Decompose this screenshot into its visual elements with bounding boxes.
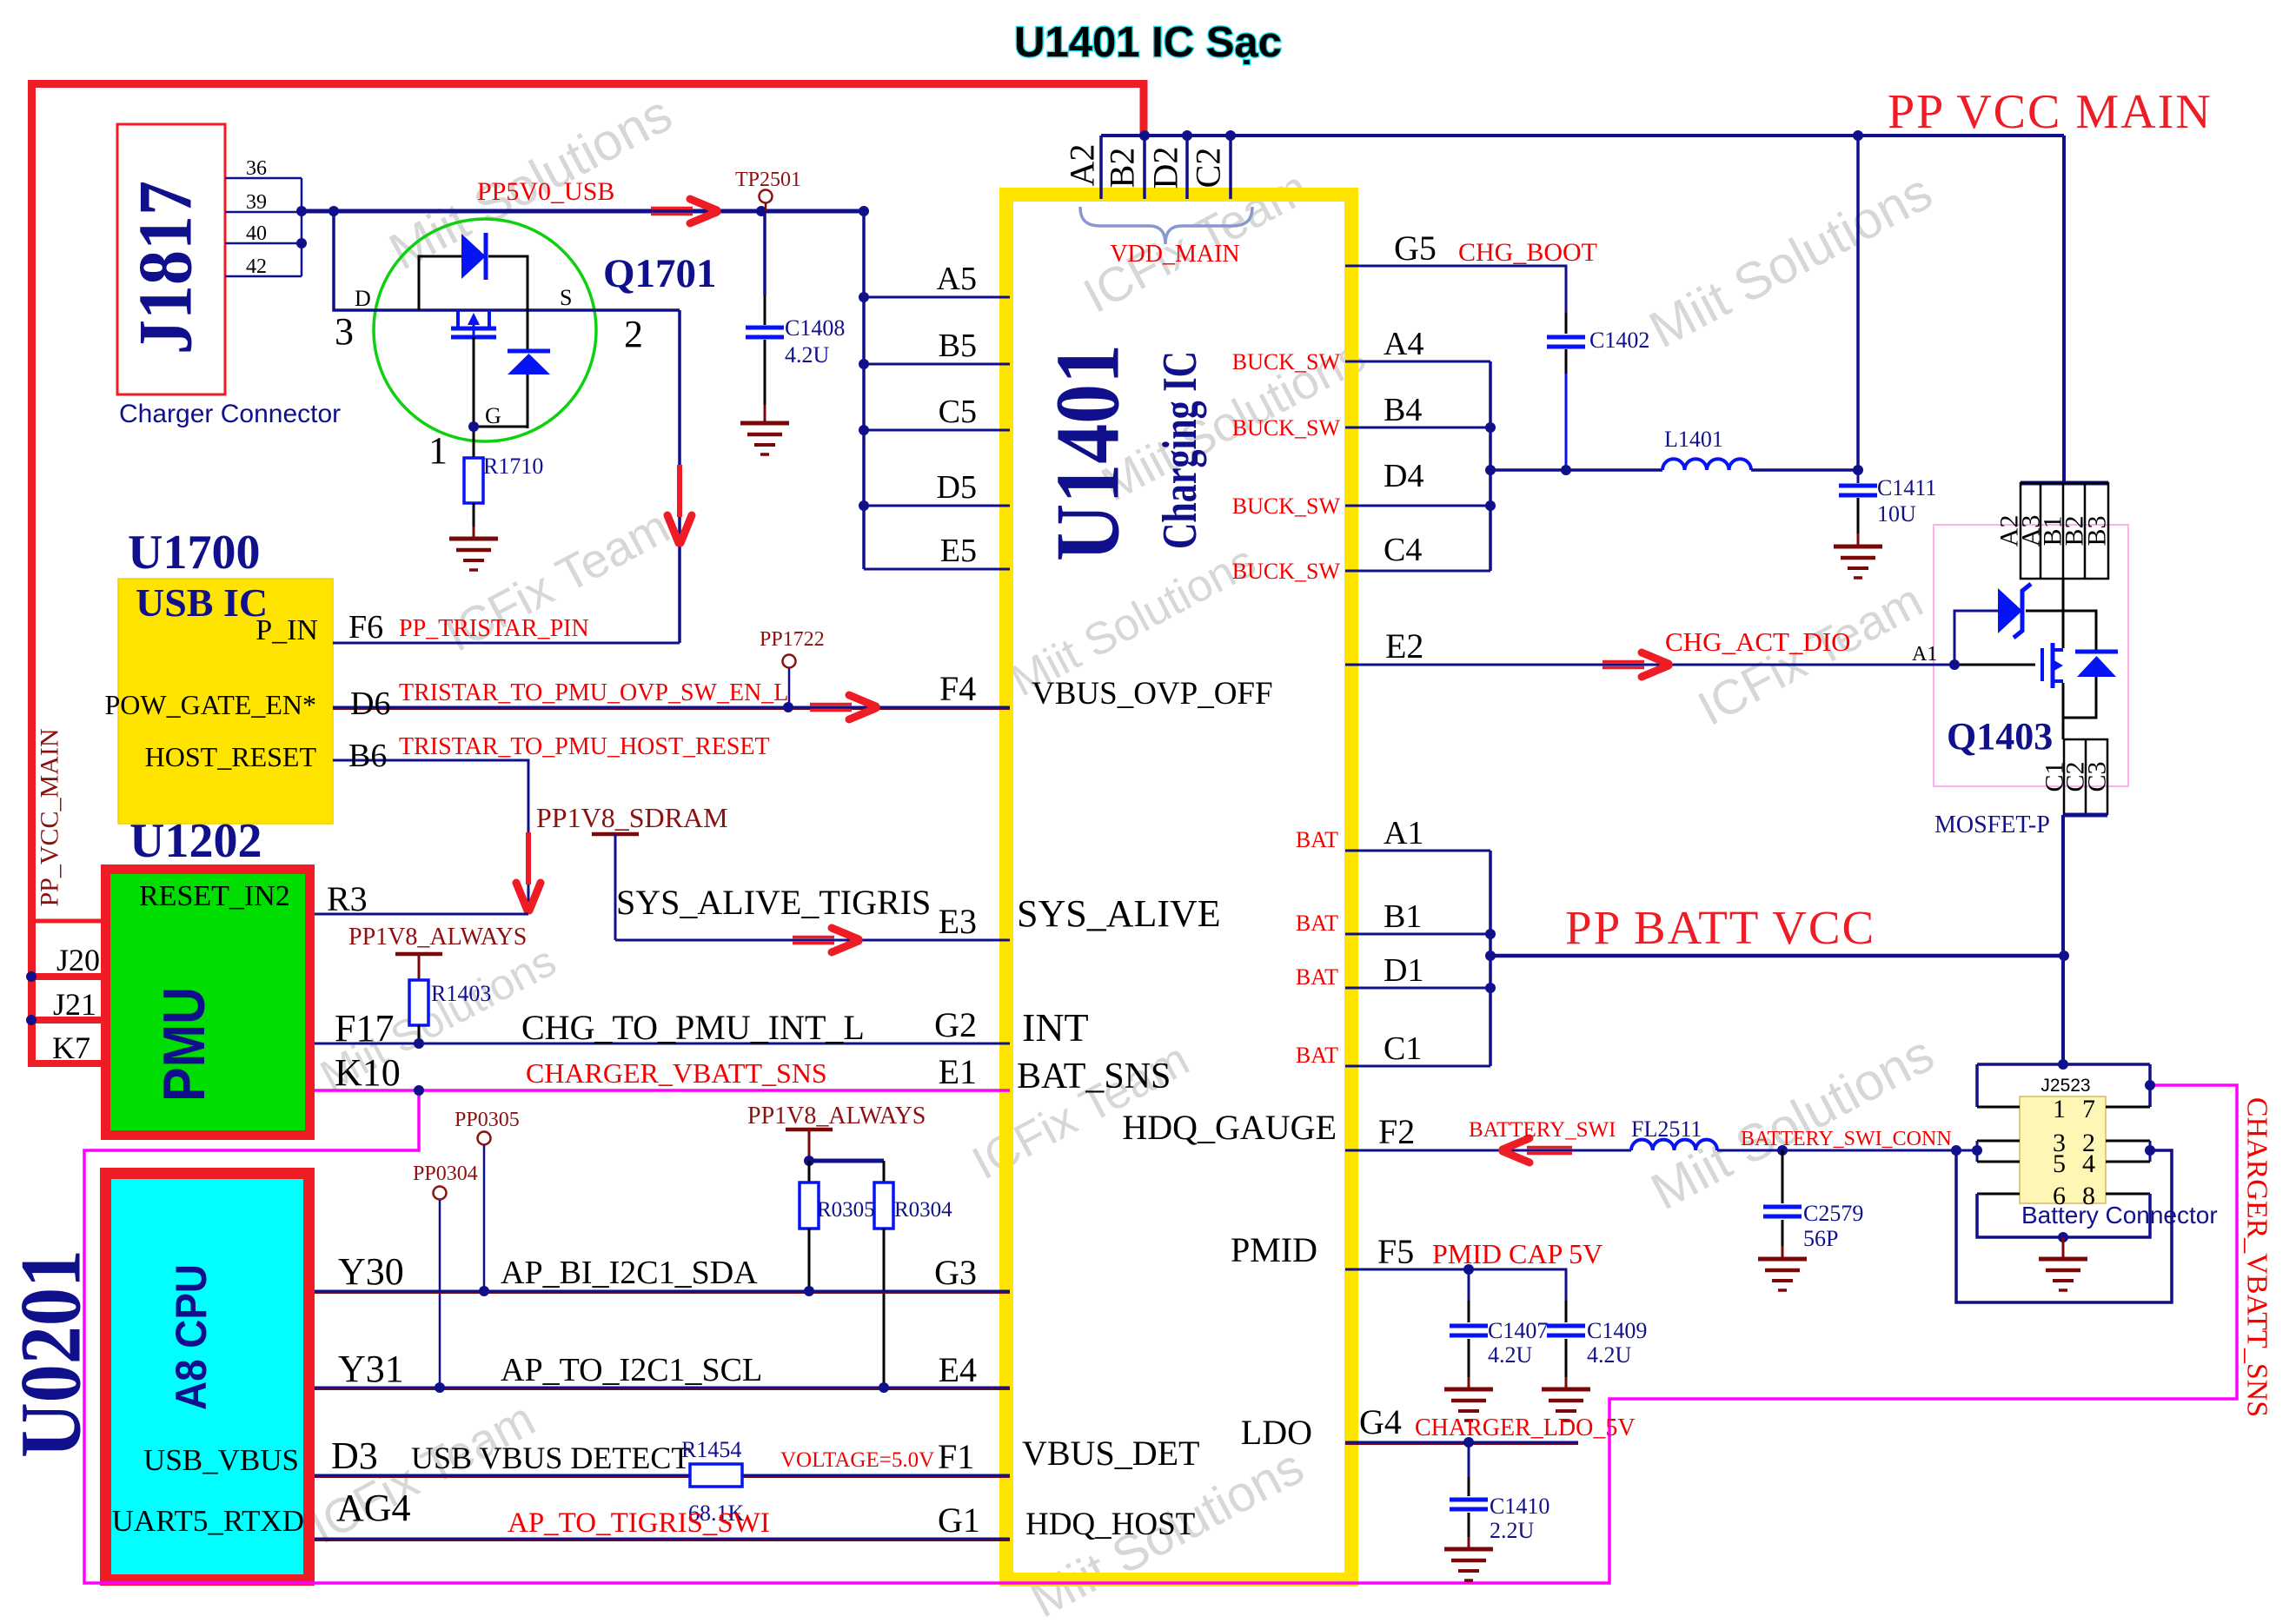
svg-text:F1: F1 <box>938 1437 974 1476</box>
ground below R1710 <box>449 537 498 541</box>
red arrow into R3 <box>526 832 531 884</box>
svg-text:R0304: R0304 <box>894 1198 952 1222</box>
svg-text:PP VCC MAIN: PP VCC MAIN <box>1888 85 2213 139</box>
wire Q1701 top loop <box>419 256 461 310</box>
pin stub A2 <box>1099 136 1103 199</box>
Q1403 bottom header C1 C2 C3 <box>2064 739 2107 814</box>
wire Y30 G3 SDA <box>315 1290 1010 1293</box>
svg-text:B4: B4 <box>1384 392 1422 428</box>
svg-text:B6: B6 <box>348 738 387 774</box>
mosfet symbol Q1701 <box>456 310 460 327</box>
wire VDD vertical to L1401 node <box>1856 136 1860 470</box>
J20 J21 K7 ladder rungs <box>28 919 105 924</box>
wire pin A4 <box>1345 361 1490 363</box>
svg-text:L1401: L1401 <box>1664 427 1723 452</box>
svg-text:C1410: C1410 <box>1490 1494 1549 1519</box>
wire Q1701 drain branch <box>334 211 680 310</box>
resistor R1710 <box>464 458 483 503</box>
svg-text:CHARGER_VBATT_SNS: CHARGER_VBATT_SNS <box>2241 1097 2273 1417</box>
ground below C1408 <box>740 421 789 426</box>
capacitor C1408 <box>763 211 766 295</box>
svg-text:S: S <box>560 285 572 310</box>
capacitor C1411 <box>1857 470 1860 483</box>
wire Q1403 center vertical <box>2062 579 2065 648</box>
svg-text:J20: J20 <box>56 943 100 977</box>
svg-text:4.2U: 4.2U <box>1488 1342 1533 1368</box>
svg-text:USB VBUS DETECT: USB VBUS DETECT <box>411 1441 690 1475</box>
body diode Q1701 <box>508 354 550 374</box>
svg-text:G4: G4 <box>1359 1402 1402 1441</box>
wire D3 F1 VBUS detect <box>315 1474 690 1477</box>
svg-text:BUCK_SW: BUCK_SW <box>1232 349 1341 374</box>
resistor R1403 <box>409 980 428 1025</box>
pin POW_GATE_EN* D6 wire <box>333 706 1010 709</box>
svg-text:AP_TO_I2C1_SCL: AP_TO_I2C1_SCL <box>501 1352 762 1388</box>
connector J2523 frame <box>1977 1063 2150 1066</box>
wire Y31 E4 SCL <box>315 1387 1010 1389</box>
svg-text:BUCK_SW: BUCK_SW <box>1232 494 1341 519</box>
svg-text:PP1V8_ALWAYS: PP1V8_ALWAYS <box>747 1103 926 1129</box>
wire pin E5 <box>864 568 1010 571</box>
svg-text:E5: E5 <box>940 533 977 569</box>
svg-text:C2579: C2579 <box>1803 1201 1863 1226</box>
svg-text:J2523: J2523 <box>2041 1076 2090 1096</box>
svg-text:R3: R3 <box>327 879 368 918</box>
pin HOST_RESET B6 wire <box>333 760 528 914</box>
wire PP_BATT_VCC <box>1490 954 2064 958</box>
wire PP_VCC red feed <box>32 84 1145 1064</box>
capacitor C1410 <box>1468 1442 1470 1477</box>
J2523 pin wires <box>1977 1106 2020 1109</box>
svg-text:AG4: AG4 <box>336 1487 411 1529</box>
svg-text:PP BATT VCC: PP BATT VCC <box>1565 901 1875 954</box>
label PMU rotated <box>151 987 217 1102</box>
BUCK_SW pins A4 B4 D4 C4 <box>1489 361 1492 571</box>
pin G5 wire CHG_BOOT <box>1345 266 1566 313</box>
zener diode Q1403 <box>1998 588 2022 633</box>
wire R3 RESET_IN2 <box>315 913 528 916</box>
IC U1401 reference <box>1037 344 1138 561</box>
transistor Q1701 circle <box>374 219 596 441</box>
J1817 pin ladder <box>225 177 302 180</box>
svg-text:AP_BI_I2C1_SDA: AP_BI_I2C1_SDA <box>501 1255 758 1291</box>
svg-text:PMID: PMID <box>1231 1230 1317 1269</box>
label PP_VCC_MAIN rotated <box>36 728 64 906</box>
capacitor C1407 <box>1468 1269 1470 1301</box>
red arrow down pin2 <box>677 465 682 517</box>
wire FL2511 to J2523 <box>1717 1149 1977 1152</box>
svg-text:4: 4 <box>2082 1149 2095 1178</box>
svg-text:U1401 IC Sạc: U1401 IC Sạc <box>1014 19 1282 66</box>
Q1403 top pin header <box>2021 481 2108 486</box>
U1401 charging IC box <box>1006 195 1351 1580</box>
svg-text:E1: E1 <box>939 1052 977 1091</box>
svg-text:A4: A4 <box>1384 326 1423 362</box>
wire PP5V0_USB main <box>302 209 864 214</box>
svg-text:G1: G1 <box>938 1500 980 1540</box>
svg-text:A1: A1 <box>1912 643 1937 666</box>
svg-text:A8 CPU: A8 CPU <box>167 1264 216 1410</box>
wire K10 BAT_SNS magenta <box>315 1089 1010 1092</box>
svg-text:J1817: J1817 <box>124 181 209 354</box>
svg-text:D4: D4 <box>1384 458 1423 494</box>
svg-text:K7: K7 <box>52 1030 90 1065</box>
svg-text:E3: E3 <box>939 902 977 941</box>
svg-text:C3: C3 <box>2083 761 2112 792</box>
svg-text:R1403: R1403 <box>431 981 491 1006</box>
wire L1401 to C1411 node <box>1751 468 1858 472</box>
svg-text:Q1403: Q1403 <box>1947 715 2053 758</box>
svg-text:D2: D2 <box>1146 147 1185 189</box>
capacitor C2579 <box>1777 1145 1788 1156</box>
svg-text:VOLTAGE=5.0V: VOLTAGE=5.0V <box>780 1448 934 1472</box>
wire magenta loop around CPU <box>84 1085 2237 1583</box>
svg-text:BAT_SNS: BAT_SNS <box>1017 1057 1171 1096</box>
svg-text:BAT: BAT <box>1296 827 1338 852</box>
svg-text:USB IC: USB IC <box>136 580 268 625</box>
svg-text:C1408: C1408 <box>785 315 845 341</box>
wire pin C4 <box>1345 570 1490 573</box>
svg-text:F5: F5 <box>1377 1232 1414 1271</box>
svg-text:G: G <box>485 403 501 428</box>
svg-text:HDQ_HOST: HDQ_HOST <box>1025 1507 1195 1542</box>
svg-text:39: 39 <box>246 191 267 214</box>
wire pin B1 <box>1345 933 1490 936</box>
svg-text:BAT: BAT <box>1296 964 1338 990</box>
svg-text:VBUS_DET: VBUS_DET <box>1022 1434 1199 1473</box>
svg-text:U0201: U0201 <box>3 1249 99 1458</box>
svg-text:UART5_RTXD: UART5_RTXD <box>112 1504 304 1538</box>
svg-text:D1: D1 <box>1384 952 1423 989</box>
label A8 CPU rotated <box>167 1264 216 1410</box>
svg-text:Y31: Y31 <box>338 1348 404 1390</box>
BAT pin bus <box>1489 851 1492 1066</box>
svg-text:VBUS_OVP_OFF: VBUS_OVP_OFF <box>1032 676 1273 712</box>
svg-text:U1700: U1700 <box>128 526 260 580</box>
svg-text:Y30: Y30 <box>338 1250 404 1293</box>
pin stub D2 <box>1185 136 1189 199</box>
svg-text:F4: F4 <box>939 669 976 708</box>
wire Q1701 body-diode branch <box>527 358 529 428</box>
svg-text:B1: B1 <box>1384 898 1422 935</box>
svg-text:POW_GATE_EN*: POW_GATE_EN* <box>104 689 316 720</box>
svg-text:PP0304: PP0304 <box>413 1163 478 1185</box>
svg-text:K10: K10 <box>335 1051 401 1094</box>
svg-text:A2: A2 <box>1063 144 1102 187</box>
svg-text:CHG_TO_PMU_INT_L: CHG_TO_PMU_INT_L <box>521 1008 865 1047</box>
svg-text:CHARGER_LDO_5V: CHARGER_LDO_5V <box>1415 1414 1636 1441</box>
svg-text:BUCK_SW: BUCK_SW <box>1232 415 1341 441</box>
label U0201 rotated <box>3 1249 99 1458</box>
wire Q1403 to battery <box>2061 815 2065 1064</box>
svg-text:HOST_RESET: HOST_RESET <box>145 741 317 772</box>
svg-text:PMU: PMU <box>151 987 217 1102</box>
capacitor C1402 <box>1565 313 1568 334</box>
wire pin B5 <box>864 363 1010 366</box>
wire pin C1 <box>1345 1065 1490 1068</box>
svg-text:CHG_ACT_DIO: CHG_ACT_DIO <box>1665 626 1851 657</box>
svg-text:C1409: C1409 <box>1587 1318 1647 1343</box>
svg-text:PMID CAP 5V: PMID CAP 5V <box>1432 1238 1603 1269</box>
ground below J2523 <box>2062 1237 2065 1259</box>
svg-text:G3: G3 <box>934 1253 977 1292</box>
svg-text:5: 5 <box>2053 1149 2066 1178</box>
wire zener branch <box>1954 611 1998 665</box>
svg-text:MOSFET-P: MOSFET-P <box>1934 811 2050 838</box>
wire Q1701 S to pin2 <box>678 310 681 643</box>
svg-text:F2: F2 <box>1378 1112 1415 1151</box>
svg-text:A1: A1 <box>1384 815 1423 851</box>
PMU U1202 box <box>106 870 310 1136</box>
node vdd junction C1411 branch <box>1853 130 1863 141</box>
svg-text:PP_VCC_MAIN: PP_VCC_MAIN <box>36 728 64 906</box>
svg-text:C1407: C1407 <box>1488 1318 1548 1343</box>
svg-text:LDO: LDO <box>1241 1413 1312 1452</box>
pin stub C2 <box>1229 136 1232 199</box>
svg-text:Q1701: Q1701 <box>603 251 717 296</box>
pin P_IN F6 wire <box>333 642 680 645</box>
wire R1710 to ground <box>473 503 475 527</box>
svg-text:1: 1 <box>2053 1095 2066 1123</box>
ground below C2579 <box>1758 1257 1807 1262</box>
svg-text:C2: C2 <box>1189 148 1228 189</box>
svg-text:F17: F17 <box>335 1007 394 1050</box>
svg-text:E4: E4 <box>939 1350 977 1389</box>
svg-text:36: 36 <box>246 157 267 180</box>
svg-text:D3: D3 <box>331 1434 378 1477</box>
svg-text:F6: F6 <box>348 609 383 646</box>
watermarks <box>380 84 681 282</box>
svg-text:PP0305: PP0305 <box>455 1109 520 1131</box>
wire F17 INT <box>315 1043 1010 1045</box>
wire pin B4 <box>1345 427 1490 429</box>
svg-text:U1401: U1401 <box>1037 344 1138 561</box>
pin stub B2 <box>1143 136 1146 199</box>
node pp5v0 junctions <box>296 206 307 216</box>
svg-text:D: D <box>355 286 371 311</box>
battery sense loop <box>1956 1150 2172 1302</box>
CPU U0201 box <box>106 1174 309 1580</box>
wire pin A5 <box>864 296 1010 299</box>
svg-text:Charger Connector: Charger Connector <box>119 400 341 428</box>
svg-text:C1402: C1402 <box>1589 328 1649 353</box>
svg-text:D5: D5 <box>937 469 977 506</box>
svg-text:RESET_IN2: RESET_IN2 <box>139 880 290 912</box>
svg-text:BAT: BAT <box>1296 911 1338 936</box>
svg-text:Battery Connector: Battery Connector <box>2021 1202 2218 1229</box>
svg-text:G5: G5 <box>1394 229 1437 268</box>
wire E3 SYS_ALIVE <box>615 939 1010 942</box>
wire E2 CHG_ACT_DIO <box>1345 664 1954 666</box>
diode D top of Q1701 <box>461 234 486 279</box>
label CHARGER_VBATT_SNS rotated right <box>2241 1097 2273 1417</box>
svg-text:TRISTAR_TO_PMU_HOST_RESET: TRISTAR_TO_PMU_HOST_RESET <box>399 733 770 760</box>
Q1403 outline box <box>1934 525 2128 786</box>
wire F5 PMID <box>1345 1269 1566 1301</box>
svg-text:CHARGER_VBATT_SNS: CHARGER_VBATT_SNS <box>526 1057 827 1089</box>
svg-text:40: 40 <box>246 222 267 245</box>
svg-text:3: 3 <box>335 310 354 353</box>
svg-text:BATTERY_SWI_CONN: BATTERY_SWI_CONN <box>1741 1128 1952 1150</box>
svg-text:J21: J21 <box>53 987 96 1022</box>
svg-text:B5: B5 <box>939 328 977 364</box>
wire pin D5 <box>864 505 1010 507</box>
wire VDD_MAIN bus <box>1101 134 2064 137</box>
wire pin A1 <box>1345 850 1490 852</box>
svg-text:AP_TO_TIGRIS_SWI: AP_TO_TIGRIS_SWI <box>508 1507 770 1539</box>
svg-text:R1454: R1454 <box>681 1437 741 1462</box>
ground below C1411 <box>1834 545 1882 549</box>
svg-text:SYS_ALIVE_TIGRIS: SYS_ALIVE_TIGRIS <box>616 883 931 922</box>
svg-text:C1: C1 <box>1384 1030 1422 1067</box>
wire pin D1 <box>1345 987 1490 990</box>
svg-text:A5: A5 <box>937 261 977 297</box>
svg-text:HDQ_GAUGE: HDQ_GAUGE <box>1122 1108 1337 1147</box>
svg-text:PP1V8_ALWAYS: PP1V8_ALWAYS <box>348 924 527 951</box>
IC U1401 subtitle Charging IC <box>1153 351 1207 549</box>
svg-text:PP_TRISTAR_PIN: PP_TRISTAR_PIN <box>399 615 589 642</box>
svg-text:PP5V0_USB: PP5V0_USB <box>477 177 614 206</box>
svg-text:R1710: R1710 <box>483 454 543 479</box>
connector J1817 <box>117 124 225 394</box>
svg-text:VDD_MAIN: VDD_MAIN <box>1110 241 1239 268</box>
svg-text:4.2U: 4.2U <box>1587 1342 1632 1368</box>
svg-text:U1202: U1202 <box>129 814 262 868</box>
svg-text:INT: INT <box>1022 1005 1089 1050</box>
svg-text:G2: G2 <box>934 1005 977 1044</box>
capacitor C1409 <box>1565 1301 1568 1322</box>
wire Q1701 gate down <box>473 337 475 458</box>
svg-text:E2: E2 <box>1385 626 1423 666</box>
svg-text:BAT: BAT <box>1296 1043 1338 1068</box>
resistor R0305 <box>800 1182 819 1229</box>
svg-text:B2: B2 <box>1103 148 1142 189</box>
wire pin D4 <box>1345 505 1490 507</box>
svg-text:BUCK_SW: BUCK_SW <box>1232 559 1341 584</box>
svg-text:R0305: R0305 <box>817 1198 875 1222</box>
svg-text:BATTERY_SWI: BATTERY_SWI <box>1469 1118 1616 1142</box>
body diode Q1403 <box>2063 611 2096 650</box>
svg-text:D6: D6 <box>350 686 390 722</box>
wire AG4 G1 HDQ_HOST <box>315 1538 1010 1540</box>
label J1817 rotated <box>124 181 209 354</box>
J2523 pin box <box>2020 1096 2106 1203</box>
wire E2 to gate <box>1954 664 2035 666</box>
svg-text:2: 2 <box>624 313 643 355</box>
svg-text:CHG_BOOT: CHG_BOOT <box>1458 238 1597 267</box>
svg-text:C1411: C1411 <box>1877 475 1936 500</box>
wire F2 HDQ_GAUGE battery swi <box>1345 1149 1631 1152</box>
svg-text:P_IN: P_IN <box>255 614 318 646</box>
brace VDD_MAIN <box>1080 207 1252 244</box>
svg-text:2.2U: 2.2U <box>1490 1518 1535 1543</box>
svg-text:C4: C4 <box>1384 532 1422 568</box>
svg-text:B3: B3 <box>2083 515 2112 546</box>
svg-text:7: 7 <box>2082 1095 2095 1123</box>
svg-text:10U: 10U <box>1877 501 1916 527</box>
svg-text:4.2U: 4.2U <box>785 342 830 368</box>
wire G4 LDO <box>1345 1441 1578 1444</box>
svg-text:PP1722: PP1722 <box>760 628 825 651</box>
resistor pair top bar <box>809 1159 884 1163</box>
mosfet symbol Q1403 <box>2041 648 2044 681</box>
svg-text:56P: 56P <box>1803 1226 1838 1251</box>
USB IC U1700 box <box>118 579 333 824</box>
svg-text:C5: C5 <box>939 394 977 430</box>
wire buck mid to L1401 <box>1490 468 1662 472</box>
svg-text:SYS_ALIVE: SYS_ALIVE <box>1017 892 1221 935</box>
svg-text:PP1V8_SDRAM: PP1V8_SDRAM <box>536 802 728 833</box>
wire pin bus A5-E5 <box>862 211 866 569</box>
resistor R0304 <box>874 1182 893 1229</box>
svg-text:1: 1 <box>428 429 448 472</box>
svg-text:42: 42 <box>246 255 267 278</box>
wire right vertical to Q1403 <box>2062 136 2066 483</box>
svg-text:TP2501: TP2501 <box>735 169 801 191</box>
wire pin C5 <box>864 429 1010 432</box>
svg-text:TRISTAR_TO_PMU_OVP_SW_EN_L: TRISTAR_TO_PMU_OVP_SW_EN_L <box>399 679 788 706</box>
svg-text:Charging IC: Charging IC <box>1153 351 1207 549</box>
svg-text:USB_VBUS: USB_VBUS <box>143 1443 299 1477</box>
